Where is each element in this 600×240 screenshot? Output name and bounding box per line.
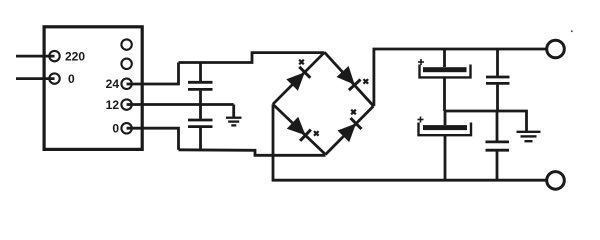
wire mid rail — [445, 111, 527, 131]
wire primary 0 lead — [16, 77, 55, 80]
capacitor C2 plates — [188, 119, 213, 122]
diode D4 x mark — [351, 110, 356, 115]
svg-text:12: 12 — [106, 98, 120, 112]
wire 24 to rail — [127, 63, 179, 85]
capacitor C5 top lead — [496, 49, 499, 76]
capacitor C5 plates — [486, 76, 510, 79]
electrolytic C4 tray plate — [419, 123, 472, 136]
capacitor C1 top lead — [199, 63, 202, 82]
svg-text:0: 0 — [68, 72, 75, 86]
diode D2 x mark — [364, 79, 369, 84]
diode D2 — [337, 66, 355, 85]
wire 12 to cap midpoint and ground — [127, 103, 234, 106]
capacitor C1 plates — [188, 81, 213, 84]
electrolytic C4 plus sign — [418, 117, 424, 123]
svg-text:220: 220 — [65, 49, 85, 63]
bridge edge bottom-right — [326, 106, 374, 155]
speck dot — [571, 30, 573, 32]
electrolytic C4 bottom lead — [444, 135, 447, 180]
diode D4 — [338, 124, 357, 143]
capacitor C6 top lead — [496, 111, 499, 141]
electrolytic C4 positive plate — [423, 125, 467, 130]
wire primary 220 lead — [16, 55, 55, 58]
wire bottom AC rail — [179, 150, 326, 156]
svg-text:24: 24 — [106, 77, 120, 91]
terminal secondary unused A — [121, 39, 131, 49]
capacitor C6 plates — [486, 140, 510, 143]
ground GND1 stem — [232, 105, 235, 118]
diode D3 — [287, 117, 306, 135]
wire bridge plus riser — [374, 49, 547, 106]
capacitor C2 top lead — [199, 105, 202, 119]
ground GND2 bars — [517, 131, 541, 133]
terminal output minus — [547, 172, 565, 190]
wire 0 to rail — [127, 128, 179, 150]
electrolytic C3 plus sign — [418, 59, 424, 65]
bridge edge left-top — [273, 52, 325, 104]
diode D1 x mark — [299, 60, 304, 65]
electrolytic C3 tray plate — [420, 65, 471, 78]
diode D1 — [286, 72, 305, 91]
wire bridge minus drop — [273, 104, 547, 180]
terminal secondary 0 — [121, 123, 131, 133]
diode D3 x mark — [314, 131, 319, 136]
svg-text:0: 0 — [112, 122, 119, 136]
electrolytic C4 top lead — [444, 111, 447, 125]
electrolytic C3 top lead — [443, 49, 446, 67]
bridge edge left-bottom — [273, 104, 326, 154]
capacitor C1 bottom lead — [199, 91, 202, 105]
capacitor C6 bottom lead — [496, 151, 499, 180]
terminal secondary 24 — [121, 79, 131, 89]
electrolytic C3 bottom lead — [443, 77, 446, 111]
wire top AC rail — [179, 53, 325, 63]
transformer T1 box — [44, 27, 142, 150]
terminal output plus — [547, 40, 565, 58]
capacitor C2 bottom lead — [199, 128, 202, 150]
terminal primary 0 — [49, 73, 59, 83]
capacitor C5 bottom lead — [496, 85, 499, 111]
terminal secondary unused B — [121, 59, 131, 69]
ground GND1 bars — [226, 117, 242, 119]
bridge edge top-right — [325, 52, 374, 106]
electrolytic C3 positive plate — [423, 67, 467, 72]
terminal primary 220 — [49, 51, 59, 61]
terminal secondary 12 — [121, 99, 131, 109]
